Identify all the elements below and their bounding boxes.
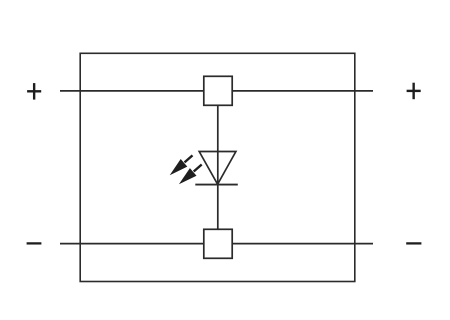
polarity label: right minus [406, 242, 421, 244]
wire: bottom feed-through conductor [60, 243, 373, 245]
wire: vertical branch between clamps [217, 105, 219, 230]
terminal clamp (bottom square) [204, 229, 232, 258]
LED D1: triangle (anode) [199, 152, 236, 185]
wire: top feed-through conductor [60, 90, 373, 92]
LED D1: cathode bar [195, 184, 238, 186]
polarity label: left plus [27, 83, 41, 100]
polarity label: right plus [407, 83, 421, 100]
component outline (terminal block body) [80, 53, 355, 281]
polarity label: left minus [27, 242, 42, 244]
LED emission arrow 2 [179, 165, 202, 185]
terminal clamp (top square) [204, 76, 232, 105]
LED emission arrow 1 [170, 155, 193, 175]
